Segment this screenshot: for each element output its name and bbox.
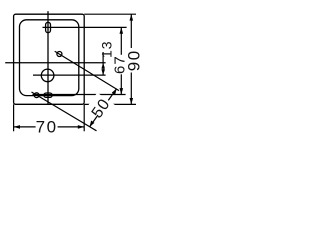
circle horizontal centerline + extension to 13 dim (33, 74, 106, 76)
67 bottom arrow (120, 88, 124, 94)
90 top arrow (130, 14, 134, 20)
arrowheads (14, 14, 134, 129)
top extension line for 90 (84, 13, 136, 15)
13 top arrow (101, 63, 105, 69)
reference line y63 (5, 62, 105, 64)
top slot (vertical oblong) (46, 22, 51, 32)
70 dimension line (14, 126, 85, 128)
inner rounded plate (20, 20, 79, 96)
bottom slot centerline tick + extension to 67 dim (33, 94, 126, 96)
upper leader line through hole (55, 51, 119, 90)
lower leader line through hole (32, 92, 97, 131)
50 dimension line (diagonal) (90, 89, 117, 127)
67 dimension line (120, 27, 122, 94)
90 bottom arrow (130, 98, 134, 104)
50 upper arrow (112, 89, 117, 95)
text white backings (36, 48, 141, 135)
70 extension line right (83, 104, 85, 131)
67 top arrow (120, 27, 124, 33)
70 extension line left (13, 104, 15, 131)
bottom slot (horizontal oblong) (44, 93, 52, 97)
vertical centerline (47, 11, 49, 104)
top slot centerline tick + extension to 67 dim (43, 26, 127, 28)
90 dimension line (130, 14, 132, 104)
svg-text:13: 13 (99, 40, 115, 58)
13 dimension line (102, 52, 104, 75)
upper small hole (57, 52, 62, 57)
50 lower arrow (90, 121, 95, 127)
13 bottom arrow (101, 69, 105, 75)
bottom extension line for 90 (84, 103, 136, 105)
outer plate rectangle 70x90 (14, 14, 85, 104)
70 left arrow (14, 125, 20, 129)
lower small hole (34, 93, 39, 98)
svg-text:70: 70 (36, 118, 58, 137)
70 right arrow (78, 125, 84, 129)
big wiring hole circle (41, 69, 54, 82)
